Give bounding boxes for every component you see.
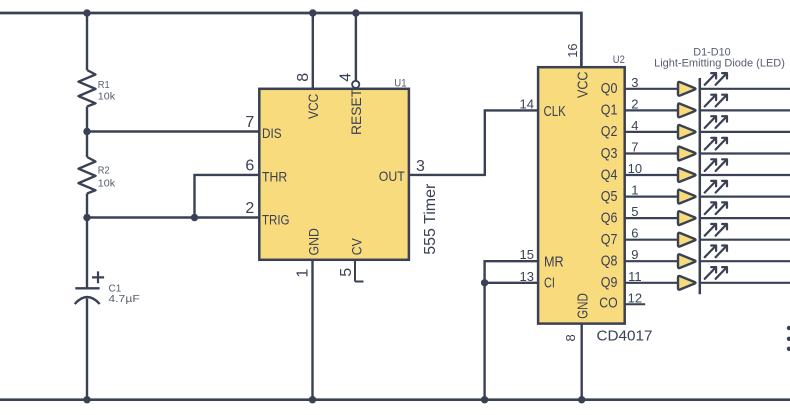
svg-text:10: 10	[628, 161, 642, 176]
svg-text:Q7: Q7	[601, 231, 618, 248]
svg-text:U2: U2	[613, 54, 625, 66]
svg-text:7: 7	[245, 114, 254, 131]
svg-text:4: 4	[338, 73, 355, 82]
svg-text:MR: MR	[544, 253, 564, 270]
svg-text:1: 1	[295, 269, 312, 278]
svg-text:8: 8	[563, 334, 578, 341]
svg-text:9: 9	[631, 247, 638, 262]
svg-text:Q1: Q1	[601, 102, 618, 119]
svg-text:Q6: Q6	[601, 209, 618, 226]
svg-text:GND: GND	[305, 228, 321, 255]
svg-text:VCC: VCC	[305, 94, 321, 119]
svg-text:5: 5	[631, 204, 638, 219]
svg-text:555 Timer: 555 Timer	[422, 183, 439, 255]
svg-text:Q0: Q0	[601, 80, 618, 97]
svg-text:15: 15	[520, 247, 534, 262]
svg-text:OUT: OUT	[379, 168, 405, 184]
svg-text:Q8: Q8	[601, 253, 618, 270]
svg-text:5: 5	[338, 268, 355, 277]
svg-text:1: 1	[631, 183, 638, 198]
svg-text:VCC: VCC	[575, 71, 592, 98]
svg-text:11: 11	[628, 269, 642, 284]
svg-text:CV: CV	[348, 238, 364, 256]
svg-text:8: 8	[295, 73, 312, 82]
svg-text:Q5: Q5	[601, 188, 618, 205]
svg-text:TRIG: TRIG	[262, 212, 290, 228]
svg-text:Q2: Q2	[601, 123, 618, 140]
svg-text:GND: GND	[574, 293, 591, 319]
svg-text:16: 16	[565, 43, 580, 57]
svg-text:10k: 10k	[98, 177, 116, 189]
svg-text:Light-Emitting Diode (LED): Light-Emitting Diode (LED)	[654, 57, 785, 69]
svg-text:10k: 10k	[98, 90, 116, 102]
svg-text:R2: R2	[98, 164, 110, 176]
svg-text:CD4017: CD4017	[597, 327, 653, 344]
svg-text:4: 4	[631, 118, 638, 133]
svg-text:Q9: Q9	[601, 274, 618, 291]
svg-text:2: 2	[631, 96, 638, 111]
svg-text:CLK: CLK	[544, 103, 566, 120]
svg-text:R1: R1	[98, 79, 110, 91]
svg-text:DIS: DIS	[262, 125, 282, 141]
svg-text:4.7µF: 4.7µF	[108, 293, 139, 305]
svg-text:7: 7	[631, 140, 638, 155]
svg-text:Q3: Q3	[601, 145, 618, 162]
svg-text:13: 13	[520, 269, 534, 284]
svg-text:3: 3	[631, 75, 638, 90]
svg-text:2: 2	[245, 200, 254, 217]
svg-text:6: 6	[631, 226, 638, 241]
svg-text:CO: CO	[599, 295, 617, 312]
svg-text:THR: THR	[262, 168, 287, 184]
svg-text:Q4: Q4	[601, 166, 618, 183]
svg-text:12: 12	[628, 290, 642, 305]
svg-text:14: 14	[520, 96, 534, 111]
svg-text:RESET: RESET	[348, 88, 364, 135]
svg-text:U1: U1	[394, 77, 406, 89]
svg-text:CI: CI	[544, 274, 555, 291]
svg-text:3: 3	[416, 158, 425, 175]
svg-text:6: 6	[245, 157, 254, 174]
